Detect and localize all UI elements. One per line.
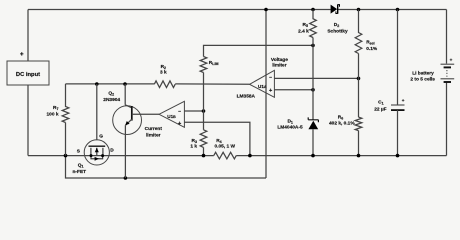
svg-text:C1: C1 <box>378 100 383 106</box>
wire R6 bottom lead <box>358 131 360 156</box>
svg-text:S: S <box>77 148 81 154</box>
svg-text:RLIM: RLIM <box>209 60 219 66</box>
node C1 negative rail <box>396 154 400 158</box>
svg-text:LM358A: LM358A <box>237 93 256 99</box>
node negative rail R7 <box>64 154 68 158</box>
svg-text:Schottky: Schottky <box>327 29 348 35</box>
svg-text:R2: R2 <box>161 64 166 70</box>
wire negative rail y156 right segment <box>236 155 446 157</box>
svg-text:D2: D2 <box>334 22 339 28</box>
svg-text:limiter: limiter <box>146 132 161 138</box>
wire top rail right of D2 <box>338 9 446 11</box>
svg-text:Li battery: Li battery <box>412 71 434 77</box>
resistor Rsel <box>355 10 362 79</box>
node R4 sense node <box>248 154 252 158</box>
wire DC input plus lead <box>27 10 29 62</box>
node R6 negative rail <box>357 154 361 158</box>
node Q1 gate tap <box>95 82 99 86</box>
wire Q1 gate lead <box>96 84 98 140</box>
node top rail supply tap <box>264 8 268 12</box>
svg-text:3 k: 3 k <box>160 70 167 76</box>
resistor R2 3k <box>154 81 175 88</box>
node top rail Rsel <box>357 8 361 12</box>
wire U1A noninverting input <box>274 89 313 91</box>
svg-text:100 k: 100 k <box>46 112 58 118</box>
svg-text:limiter: limiter <box>272 63 287 69</box>
wire U1A inverting input <box>274 77 358 79</box>
svg-text:U1B: U1B <box>167 114 176 119</box>
node R5 bottom RLIM wire <box>311 44 315 48</box>
DC input source box <box>7 61 49 85</box>
node U1A noninverting D1 <box>311 88 315 92</box>
resistor R3 1k <box>200 130 207 148</box>
node top rail R5 <box>311 8 315 12</box>
svg-text:R5: R5 <box>303 22 308 28</box>
wire R5 node to D1 <box>312 45 314 119</box>
svg-text:Q1: Q1 <box>78 162 84 168</box>
svg-text:0.1%: 0.1% <box>366 46 378 52</box>
resistor R5 2.4k <box>310 10 317 46</box>
node Q2 collector tap <box>123 82 127 86</box>
svg-text:D: D <box>110 148 114 154</box>
svg-text:1 k: 1 k <box>190 144 197 150</box>
svg-text:+: + <box>450 58 453 63</box>
svg-text:Rsel: Rsel <box>366 40 374 46</box>
wire R3 bottom lead <box>203 147 205 155</box>
diode D1 LM4040A-5 <box>308 117 318 122</box>
svg-text:+: + <box>269 88 273 94</box>
wire C1 bottom lead <box>397 110 399 156</box>
diode D2 Schottky <box>331 5 338 14</box>
wire U1B inverting input <box>184 110 203 112</box>
svg-text:n-FET: n-FET <box>73 169 87 175</box>
svg-text:+: + <box>20 51 24 58</box>
svg-text:R7: R7 <box>53 105 58 111</box>
svg-text:LM4040A-5: LM4040A-5 <box>277 124 303 130</box>
resistor R6 402k <box>355 117 362 131</box>
svg-text:R6: R6 <box>338 114 343 120</box>
node U1B inverting to RLIM R3 <box>202 109 206 113</box>
svg-text:Current: Current <box>145 126 163 132</box>
node top rail C1 <box>396 8 400 12</box>
resistor RLIM <box>200 57 207 73</box>
svg-text:G: G <box>99 134 103 140</box>
node bottom bus Q2 emitter <box>124 176 128 180</box>
resistor R4 0.05 ohm <box>214 152 237 159</box>
svg-text:+: + <box>402 98 405 103</box>
wire RLIM to R3 <box>203 73 205 130</box>
wire RLIM top bracket <box>204 45 314 56</box>
wire U1B noninverting input <box>184 122 250 155</box>
wire negative rail y156 left segment <box>28 155 214 157</box>
svg-text:R4: R4 <box>216 138 221 144</box>
wire battery bottom lead <box>446 82 448 156</box>
wire top rail left of D2 <box>28 9 331 11</box>
svg-text:Voltage: Voltage <box>271 57 288 63</box>
resistor R7 100k <box>62 84 69 156</box>
transistor Q1 n-FET <box>84 140 109 165</box>
capacitor C1 22uF <box>391 104 405 106</box>
svg-text:2N3904: 2N3904 <box>103 97 120 103</box>
wire Rsel R6 node to R6 <box>358 78 360 117</box>
svg-text:2 to 5 cells: 2 to 5 cells <box>410 76 435 82</box>
wire U1A V- supply drop <box>265 10 267 179</box>
op-amp U1A <box>250 70 275 97</box>
transistor Q2 2N3904 <box>113 106 142 135</box>
wire bottom bus <box>66 156 267 178</box>
svg-text:402 k, 0.1%: 402 k, 0.1% <box>329 121 355 127</box>
svg-text:0.05, 1 W: 0.05, 1 W <box>215 144 236 150</box>
svg-text:DC input: DC input <box>16 72 40 78</box>
node D1 negative rail <box>311 154 315 158</box>
svg-text:D1: D1 <box>287 119 292 125</box>
node U1A inverting Rsel R6 <box>357 77 361 81</box>
svg-text:−: − <box>269 75 272 81</box>
op-amp U1B <box>159 101 184 127</box>
svg-text:2.4 k: 2.4 k <box>298 29 309 35</box>
wire U1A output to R2 node <box>66 83 250 85</box>
svg-text:U1A: U1A <box>258 84 267 89</box>
battery Li 2-5 cells <box>441 63 455 65</box>
svg-text:R3: R3 <box>192 138 197 144</box>
wire C1 top lead <box>397 10 399 106</box>
wire D1 anode lead <box>312 129 314 155</box>
node R3 negative rail <box>202 154 206 158</box>
wire DC input minus lead <box>27 85 29 156</box>
svg-text:Q2: Q2 <box>108 91 114 97</box>
svg-text:−: − <box>178 109 181 115</box>
svg-text:22 µF: 22 µF <box>374 106 386 112</box>
wire battery top lead <box>446 10 448 64</box>
